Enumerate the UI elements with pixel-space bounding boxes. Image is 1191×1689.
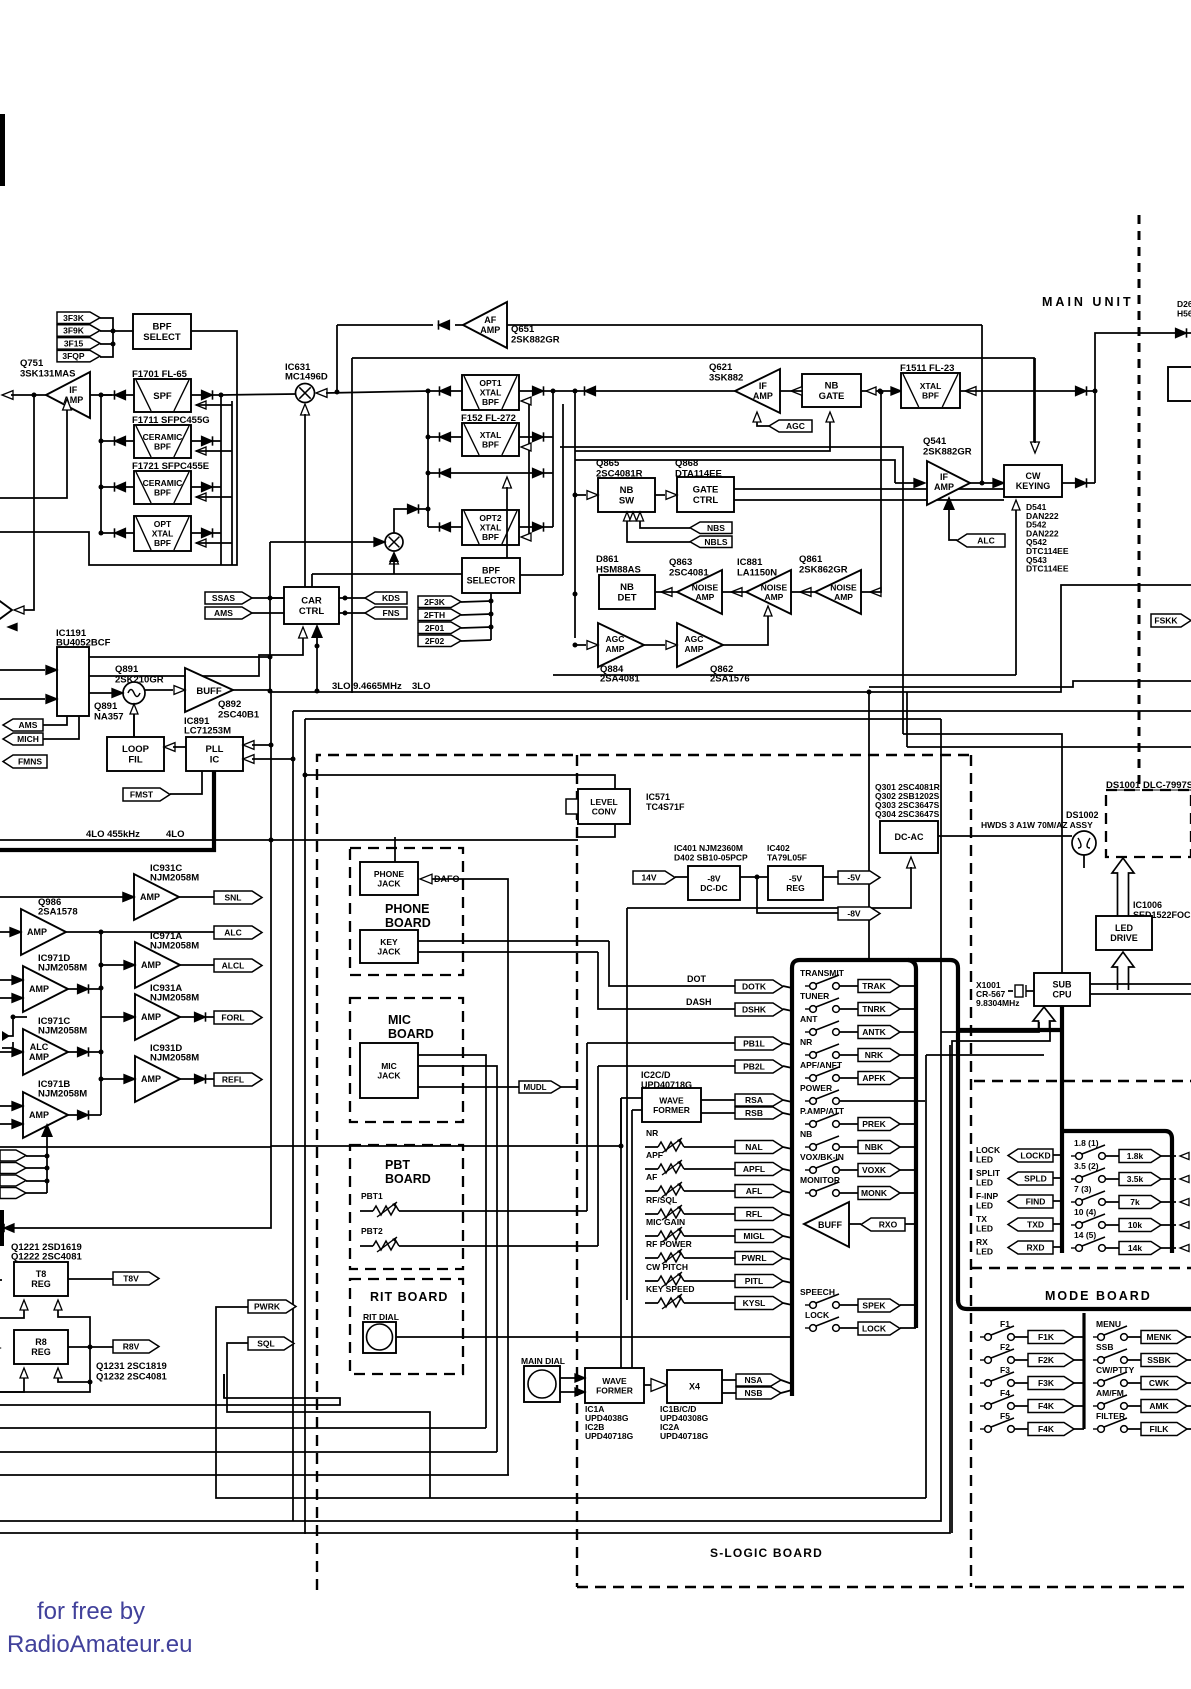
svg-text:RFL: RFL	[746, 1209, 763, 1219]
return arrow filter1 row3	[196, 493, 232, 501]
svg-text:NB: NB	[800, 1129, 812, 1139]
net flag PB2L	[735, 1060, 783, 1073]
svg-text:AMP: AMP	[141, 1012, 161, 1022]
wire PWRL	[645, 1257, 658, 1259]
svg-text:IF: IF	[69, 385, 78, 395]
svg-text:OPT1: OPT1	[479, 378, 501, 388]
arrow Q986 input	[0, 928, 21, 937]
svg-text:OPT2: OPT2	[479, 513, 501, 523]
resistor APF	[646, 1150, 684, 1175]
net flag 3F3K	[57, 312, 100, 324]
return arrow OPT2	[521, 533, 531, 541]
label Q1221 Q1222	[11, 1242, 82, 1263]
svg-text:PHONE: PHONE	[385, 902, 429, 916]
return arrow OPT1	[521, 397, 531, 405]
wire CW keying control	[1012, 500, 1020, 675]
label DASH	[686, 997, 712, 1007]
net flag SQL	[248, 1337, 294, 1350]
net flag VOXK	[858, 1164, 900, 1177]
svg-text:PLL: PLL	[206, 744, 224, 755]
wire F3K	[1014, 1382, 1028, 1384]
wire AMS MICH to IC1191	[43, 716, 67, 725]
wire AF amp input line	[507, 324, 982, 326]
svg-text:PBT: PBT	[385, 1158, 410, 1172]
svg-text:2SA4081: 2SA4081	[600, 674, 640, 685]
wire RFL	[645, 1213, 658, 1215]
wire into matrix top	[868, 960, 870, 962]
wire KYSL	[645, 1302, 658, 1304]
net flag ALC	[214, 926, 262, 939]
diode filter1 row3 input	[101, 482, 134, 491]
svg-text:10k: 10k	[1128, 1220, 1142, 1230]
svg-text:AMP: AMP	[141, 1074, 161, 1084]
svg-text:Q891: Q891	[94, 701, 118, 712]
net flag NBLS	[690, 536, 732, 548]
switch F1	[980, 1319, 1014, 1340]
hollow arrow to display	[1112, 858, 1134, 916]
label Q863 2SC4081	[669, 557, 709, 579]
svg-text:X4: X4	[689, 1382, 700, 1392]
wire REFL diode	[180, 1078, 194, 1080]
svg-text:AMS: AMS	[214, 608, 233, 618]
wire noise tap from IF line	[861, 390, 884, 597]
label PBT BOARD	[385, 1158, 431, 1186]
svg-text:2F02: 2F02	[425, 636, 445, 646]
net flag AMS	[205, 607, 252, 619]
filter OPT2 XTAL BPF	[462, 510, 519, 545]
wire vertical from bank2 bus	[574, 391, 576, 638]
wire -5V	[823, 876, 838, 878]
left edge box	[0, 1210, 4, 1246]
svg-text:REFL: REFL	[222, 1075, 244, 1085]
svg-text:LC71253M: LC71253M	[184, 726, 231, 737]
phone board dashed box	[350, 848, 463, 975]
svg-text:AMP: AMP	[29, 1110, 49, 1120]
net flag MIGL	[735, 1230, 783, 1243]
diode filter2 row4 input	[428, 522, 462, 531]
arrow NB DET input	[655, 588, 677, 597]
svg-text:LOCK: LOCK	[976, 1145, 1001, 1155]
svg-text:F3K: F3K	[1038, 1378, 1055, 1388]
svg-text:FILTER: FILTER	[1096, 1411, 1125, 1421]
label Q751 3SK131MAS	[20, 358, 75, 380]
net flag TNRK	[858, 1003, 900, 1016]
svg-text:BPF: BPF	[482, 439, 499, 449]
S-logic bottom dashed line	[577, 1586, 963, 1588]
keypad inner thick rect	[1062, 1131, 1172, 1253]
net flag DSHK	[735, 1003, 783, 1016]
S-logic inner dashed partition	[576, 755, 578, 1587]
label Q865 2SC4081R	[596, 458, 643, 480]
oscillator Q891	[123, 682, 145, 704]
svg-text:AMP: AMP	[27, 927, 47, 937]
switch band 14 (5)	[1071, 1230, 1105, 1251]
resistor KEY SPEED	[646, 1284, 695, 1309]
svg-text:JACK: JACK	[377, 878, 401, 888]
regulator R8 REG	[14, 1330, 68, 1364]
svg-text:RIT BOARD: RIT BOARD	[370, 1290, 448, 1304]
mode board dashed top edge	[974, 1080, 1191, 1082]
meter amp IC971B	[23, 1092, 68, 1138]
svg-text:3SK882: 3SK882	[709, 373, 743, 384]
svg-text:AGC: AGC	[606, 634, 625, 644]
wire RIT DIAL out	[396, 1336, 792, 1338]
svg-text:BPF: BPF	[482, 532, 499, 542]
label Q891 NA357	[94, 701, 124, 723]
svg-text:DRIVE: DRIVE	[1110, 933, 1138, 943]
svg-text:3F15: 3F15	[64, 338, 84, 348]
wire x627 down	[626, 908, 628, 1300]
svg-text:AMP: AMP	[141, 960, 161, 970]
wire AMK	[1127, 1405, 1141, 1407]
net flag F4K 1406	[1028, 1400, 1074, 1413]
wire FORL diode	[180, 1016, 194, 1018]
phone jack box	[360, 862, 418, 895]
label Q541 2SK882GR	[923, 436, 972, 458]
svg-text:SELECTOR: SELECTOR	[467, 576, 516, 586]
svg-text:TX: TX	[976, 1214, 987, 1224]
wire TXD	[1053, 1223, 1062, 1225]
S-logic collector bus	[908, 960, 916, 1328]
svg-text:-5V: -5V	[789, 873, 803, 883]
crystal X1001	[1008, 990, 1013, 992]
svg-text:WAVE: WAVE	[659, 1095, 684, 1105]
filter F1511 XTAL BPF	[901, 373, 960, 408]
wire x271 down	[271, 840, 287, 1146]
svg-text:2SK882GR: 2SK882GR	[511, 335, 560, 346]
wire vertical x352	[351, 358, 353, 693]
wave former box S-logic	[642, 1088, 701, 1122]
net flag PWRK	[248, 1300, 296, 1313]
svg-text:NJM2058M: NJM2058M	[150, 941, 199, 952]
svg-text:FMNS: FMNS	[18, 757, 42, 767]
svg-text:Q861: Q861	[799, 554, 823, 565]
label IC931D NJM2058M	[150, 1043, 199, 1064]
svg-text:DOTK: DOTK	[742, 982, 767, 992]
arrow PLL comp input	[243, 755, 296, 764]
net flag PB1L	[735, 1037, 783, 1050]
filter F1721 ceramic BPF	[134, 471, 191, 504]
net flag RSA	[735, 1094, 783, 1106]
diode filter1 row4 input	[101, 528, 134, 537]
svg-text:2SK882GR: 2SK882GR	[923, 447, 972, 458]
svg-text:CONV: CONV	[592, 806, 617, 816]
svg-text:SUB: SUB	[1052, 980, 1072, 990]
net flag AMK	[1141, 1400, 1187, 1413]
label 3LO 9.4665MHz	[332, 681, 430, 692]
svg-text:SW: SW	[619, 496, 634, 507]
wire 2FTH	[461, 614, 491, 615]
arrow Q541 input	[895, 479, 925, 488]
wire main IF line to mixer	[221, 394, 296, 395]
switch F4	[980, 1388, 1014, 1409]
label F1701 FL-65	[132, 369, 188, 380]
hollow arrow to LED drive	[1112, 952, 1134, 990]
svg-text:AMP: AMP	[934, 482, 954, 492]
return arrow filter1 row4	[196, 539, 232, 547]
diode mixer2 output	[394, 504, 428, 533]
svg-text:CERAMIC: CERAMIC	[143, 478, 183, 488]
svg-text:FILK: FILK	[1150, 1424, 1170, 1434]
svg-text:1.8 (1): 1.8 (1)	[1074, 1138, 1099, 1148]
svg-text:RF POWER: RF POWER	[646, 1239, 692, 1249]
diode filter1 row1 output	[191, 390, 221, 399]
svg-text:NR: NR	[800, 1037, 812, 1047]
net flag edge1	[0, 1150, 26, 1161]
svg-text:R8: R8	[35, 1337, 47, 1347]
wire MIGL	[645, 1235, 658, 1237]
arrow IC1191 input1	[0, 666, 57, 675]
switch band 10 (4)	[1071, 1207, 1105, 1228]
arrow IC1191 input2	[0, 695, 57, 704]
arrow IC971B bottom	[41, 1123, 53, 1137]
arrow noise amp1 input	[722, 588, 746, 597]
svg-text:Q863: Q863	[669, 557, 692, 568]
net flag PREK	[858, 1118, 900, 1131]
wire line y447	[560, 447, 903, 734]
svg-text:LA1150N: LA1150N	[737, 568, 777, 579]
svg-text:Q891: Q891	[115, 664, 139, 675]
switch band 1.8 (1)	[1071, 1138, 1105, 1159]
wire Q541 input from line	[575, 460, 895, 483]
svg-text:IC402: IC402	[767, 843, 790, 853]
svg-text:TRANSMIT: TRANSMIT	[800, 968, 845, 978]
wire SPLD	[1053, 1177, 1062, 1179]
label LOCK LED	[976, 1145, 1001, 1165]
wire edge flag bus	[26, 1155, 47, 1157]
BPF SELECT logic box	[133, 314, 191, 349]
net flag KDS	[365, 592, 407, 604]
switch VOX/BK-IN	[800, 1152, 844, 1173]
arrow DC-AC input	[627, 857, 915, 908]
svg-text:MAIN UNIT: MAIN UNIT	[1042, 295, 1134, 309]
wire NBK to bus	[839, 1146, 858, 1148]
svg-text:ALC: ALC	[977, 536, 994, 546]
svg-text:VOX/BK-IN: VOX/BK-IN	[800, 1152, 844, 1162]
meter amp IC971D	[23, 966, 68, 1012]
svg-text:AMP: AMP	[29, 984, 49, 994]
label MAIN DIAL	[521, 1356, 565, 1366]
wire MENK	[1127, 1336, 1141, 1338]
net flag FILK	[1141, 1423, 1187, 1436]
label MAIN UNIT	[1042, 295, 1134, 309]
wire bottom y1533	[0, 1045, 950, 1533]
wire x926	[925, 1055, 927, 1498]
resistor NR	[646, 1128, 684, 1153]
net flag DOTK	[735, 980, 783, 993]
net flag NRK	[858, 1049, 900, 1062]
svg-text:MAIN DIAL: MAIN DIAL	[521, 1356, 565, 1366]
svg-text:KEY: KEY	[380, 937, 398, 947]
svg-text:PBT1: PBT1	[361, 1191, 383, 1201]
wire to right edge top	[1095, 333, 1176, 391]
net flag TRAK	[858, 980, 900, 993]
net flag PITL	[735, 1275, 783, 1288]
carrier input arrow to mixer IC631	[301, 404, 310, 587]
wire NRK to bus	[839, 1054, 858, 1056]
svg-text:7 (3): 7 (3)	[1074, 1184, 1092, 1194]
wave former box main dial	[585, 1368, 644, 1403]
wire PB2L feed	[598, 1065, 735, 1067]
svg-text:BOARD: BOARD	[385, 916, 431, 930]
label IC881 LA1150N	[737, 557, 777, 579]
svg-text:OPT: OPT	[154, 519, 172, 529]
net flag MENK	[1141, 1331, 1187, 1344]
wire SSBK	[1127, 1359, 1141, 1361]
arrow IC971C input	[0, 1048, 23, 1057]
wire BFO distribution	[312, 573, 462, 575]
net flag -5V	[838, 871, 880, 884]
svg-text:PB1L: PB1L	[743, 1039, 765, 1049]
wire tap down to AM amp	[23, 395, 34, 610]
svg-text:IC881: IC881	[737, 557, 763, 568]
box at right edge	[1168, 367, 1191, 401]
label 4LO 455kHz	[86, 829, 184, 840]
svg-text:AMP: AMP	[140, 892, 160, 902]
svg-text:Q751: Q751	[20, 358, 44, 369]
label IC971A NJM2058M	[150, 931, 199, 952]
wire IC1191 top out	[89, 656, 270, 658]
svg-text:TC4S71F: TC4S71F	[646, 802, 685, 812]
svg-text:SSAS: SSAS	[212, 593, 235, 603]
svg-text:Q304 2SC3647S: Q304 2SC3647S	[875, 809, 940, 819]
svg-text:BOARD: BOARD	[385, 1172, 431, 1186]
wire 7k	[1105, 1201, 1119, 1203]
switch F3	[980, 1365, 1014, 1386]
net flag NBS	[690, 522, 732, 534]
wire Q541 output	[970, 482, 1004, 484]
wire CAR CTRL left feed	[270, 597, 284, 599]
svg-text:2F3K: 2F3K	[424, 597, 446, 607]
net flag FMST	[123, 788, 170, 801]
arrow R8 ctl1	[0, 1368, 28, 1392]
wire GATE CTRL outputs	[734, 488, 1004, 490]
svg-text:BPF: BPF	[153, 322, 172, 333]
svg-text:NB: NB	[825, 381, 839, 392]
svg-text:NB: NB	[620, 485, 634, 496]
wire IC971D out diode	[68, 988, 77, 990]
wire 4LO thin line	[0, 839, 578, 841]
wire MONK to bus	[839, 1192, 858, 1194]
wire NAL	[645, 1146, 658, 1148]
mode board bottom-right dashed line	[975, 1586, 1191, 1588]
diode filter2 row3 input	[428, 468, 462, 477]
net flag FORL	[214, 1011, 262, 1024]
wire X4 to NSA NSB	[722, 1379, 736, 1381]
svg-text:HSM88AS: HSM88AS	[596, 565, 641, 576]
label IC1191 BU4052BCF	[56, 628, 111, 649]
svg-text:AMP: AMP	[29, 1052, 49, 1062]
svg-text:LOCK: LOCK	[862, 1324, 887, 1334]
svg-text:ALCL: ALCL	[222, 961, 245, 971]
svg-text:CERAMIC: CERAMIC	[143, 432, 183, 442]
label RX LED	[976, 1237, 993, 1257]
svg-text:CPU: CPU	[1052, 990, 1071, 1000]
svg-text:D861: D861	[596, 554, 619, 565]
svg-text:F-INP: F-INP	[976, 1191, 999, 1201]
label Q891 2SK210GR	[115, 664, 164, 686]
svg-text:2SC40B1: 2SC40B1	[218, 710, 260, 721]
arrow osc control	[130, 704, 138, 737]
svg-text:AMP: AMP	[685, 644, 704, 654]
level conv tab	[566, 799, 578, 814]
svg-text:BPF: BPF	[922, 390, 939, 400]
svg-text:REG: REG	[31, 1279, 51, 1289]
arrow PLL ref input	[243, 741, 274, 750]
net flag 3.5k	[1119, 1173, 1161, 1186]
diode filter1 row2 output	[191, 436, 221, 445]
arrows IC971B input	[0, 1102, 23, 1129]
svg-text:CTRL: CTRL	[299, 606, 325, 617]
wire ALCL	[180, 964, 214, 966]
net flag NSB	[736, 1387, 781, 1399]
net flag F1K 1337	[1028, 1331, 1074, 1344]
svg-text:SPLD: SPLD	[1024, 1174, 1047, 1184]
wire 3.5k	[1105, 1178, 1119, 1180]
wire SNL	[179, 896, 214, 898]
label TX LED	[976, 1214, 993, 1234]
label IC401	[674, 843, 748, 863]
label F1511 FL-23	[900, 363, 954, 374]
svg-text:RF/SQL: RF/SQL	[646, 1195, 677, 1205]
svg-text:PWRL: PWRL	[741, 1253, 766, 1263]
arrow into CW keying top	[1031, 358, 1040, 453]
hollow bus from sub cpu	[941, 1022, 1039, 1032]
wire DAFO	[432, 879, 508, 1475]
net flag SPEK	[858, 1299, 900, 1312]
svg-text:NRK: NRK	[865, 1050, 884, 1060]
wire filter bank2 output bus	[552, 391, 554, 527]
svg-text:F1K: F1K	[1038, 1332, 1055, 1342]
LED driver box	[1096, 916, 1152, 950]
svg-text:3SK131MAS: 3SK131MAS	[20, 369, 75, 380]
label D861 HSM88AS	[596, 554, 641, 576]
IF amp Q541	[927, 461, 970, 505]
svg-text:3LO: 3LO	[412, 681, 430, 692]
svg-text:PITL: PITL	[745, 1276, 763, 1286]
meter amp IC931C	[134, 874, 179, 920]
svg-text:MIGL: MIGL	[743, 1231, 764, 1241]
svg-text:3.5 (2): 3.5 (2)	[1074, 1161, 1099, 1171]
thick sub cpu to keypad	[1060, 1006, 1064, 1253]
svg-text:NBS: NBS	[707, 523, 725, 533]
label F1721 SFPC455E	[132, 461, 209, 472]
net flag RFL	[735, 1208, 783, 1221]
svg-text:MENK: MENK	[1146, 1332, 1172, 1342]
filter F152 XTAL BPF	[462, 423, 519, 456]
BPF SELECTOR logic box	[462, 558, 520, 593]
net flag AFL	[735, 1185, 783, 1198]
CW keying box	[1004, 465, 1062, 497]
wire main line to Q621	[553, 390, 735, 392]
net flag ALCL	[214, 959, 262, 972]
net flag FMNS	[3, 755, 47, 768]
net flag edge3	[0, 1175, 26, 1186]
svg-text:LED: LED	[976, 1155, 993, 1165]
wire IC971B out diode	[68, 1114, 77, 1116]
svg-text:LED: LED	[976, 1201, 993, 1211]
wire Q751 output to left edge	[2, 391, 46, 400]
net flag SSBK	[1141, 1354, 1187, 1367]
svg-text:T8V: T8V	[123, 1274, 139, 1284]
svg-text:D26: D26	[1177, 299, 1191, 309]
svg-text:REG: REG	[31, 1347, 51, 1357]
wire line y711	[293, 710, 1191, 712]
wire R8 REG out	[68, 1346, 113, 1348]
wire CW keying output	[1062, 482, 1076, 484]
svg-text:FIND: FIND	[1026, 1197, 1046, 1207]
arrow noise amp agc	[764, 606, 772, 616]
